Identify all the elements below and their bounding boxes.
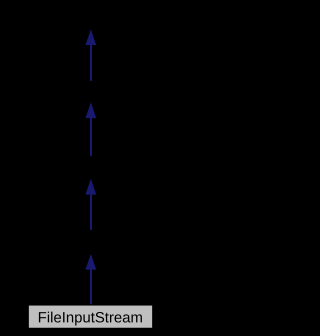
arrow 3 [85, 179, 96, 230]
arrow 4 (edge into FileInputStream) [85, 254, 96, 305]
arrow 1 (top inheritance edge) [85, 29, 96, 81]
arrow 2 [85, 102, 96, 156]
node FileInputStream [28, 305, 153, 329]
node label text (drawn as outlines above) [28, 305, 153, 328]
